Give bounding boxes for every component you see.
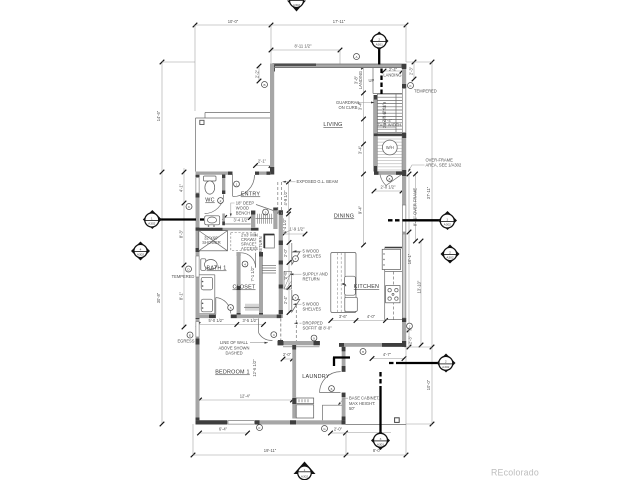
- right dimension 8'-11" over frame: [413, 172, 418, 244]
- svg-text:CLOSET: CLOSET: [232, 285, 256, 291]
- number circle 3 coat: [263, 209, 269, 215]
- svg-text:3: 3: [265, 211, 267, 215]
- stair landing: [373, 93, 402, 95]
- shower: [199, 231, 228, 251]
- dimension 4'-7" above laundry: [370, 352, 407, 361]
- wall column W2: [278, 210, 283, 345]
- note exposed gl beam: [283, 179, 339, 184]
- closet north wall piece: [237, 252, 241, 256]
- svg-text:3'-5 1/2": 3'-5 1/2": [243, 318, 259, 323]
- keynote circle E: [187, 332, 193, 338]
- section cut line bottom (3/A301): [379, 372, 381, 433]
- elevation marker 2/A302 right: [441, 245, 460, 264]
- bottom dimension 6'-4": [197, 427, 250, 436]
- patio outline bottom right: [346, 347, 407, 433]
- svg-text:WC: WC: [205, 198, 214, 204]
- section marker 1/A302 bottom center: [294, 462, 316, 480]
- keynote circle A: [354, 54, 360, 60]
- svg-text:2'-0": 2'-0": [334, 427, 343, 432]
- deck outline upper-left: [196, 113, 271, 172]
- svg-text:ON CURB: ON CURB: [339, 105, 358, 110]
- wc east wall stub: [222, 175, 225, 195]
- washer dryer stack: [296, 398, 314, 418]
- svg-text:2: 2: [449, 250, 451, 254]
- kitchen counter east: [385, 248, 402, 320]
- svg-text:SOFFIT @ 8'-0": SOFFIT @ 8'-0": [303, 326, 333, 331]
- svg-text:3'-4 1/2": 3'-4 1/2": [234, 218, 250, 223]
- svg-text:4'-0": 4'-0": [367, 314, 376, 319]
- shelf closet doors lower: [292, 290, 300, 312]
- island sink: [342, 276, 355, 295]
- supply return closet hatch: [284, 272, 292, 290]
- dimension 2'-4" stair width: [375, 118, 401, 128]
- svg-text:SHELVES: SHELVES: [303, 307, 322, 312]
- svg-text:MAX HEIGHT:: MAX HEIGHT:: [349, 401, 375, 406]
- dropped soffit dashed line hall: [295, 305, 297, 341]
- right dimension 16'-1": [407, 172, 412, 333]
- svg-text:A302: A302: [137, 253, 145, 257]
- svg-text:A301: A301: [376, 43, 384, 47]
- keynote circle F: [257, 425, 263, 431]
- svg-text:H: H: [362, 350, 364, 354]
- svg-text:4: 4: [244, 263, 246, 267]
- base cabinet laundry: [323, 405, 343, 420]
- svg-text:2: 2: [378, 37, 380, 41]
- svg-text:REcolorado: REcolorado: [491, 468, 539, 478]
- section marker 1/A302 left: [143, 210, 162, 229]
- bath vanity: [200, 275, 215, 314]
- svg-text:BEDROOM 1: BEDROOM 1: [215, 370, 250, 376]
- svg-text:LANDING: LANDING: [383, 73, 401, 78]
- dimension 5'-0 1/2" / 3'-5 1/2" bath: [196, 318, 266, 327]
- svg-text:E: E: [189, 334, 191, 338]
- right dimension 13'-10": [417, 239, 424, 348]
- svg-text:5: 5: [230, 306, 232, 310]
- bottom dimension 2'-0": [328, 427, 348, 436]
- svg-text:STAIR WIDTH: STAIR WIDTH: [375, 123, 401, 128]
- svg-text:BASE CABINET,: BASE CABINET,: [349, 396, 380, 401]
- refrigerator: [382, 249, 400, 269]
- svg-text:2'-0": 2'-0": [283, 248, 288, 257]
- west living wall: [270, 64, 274, 175]
- svg-text:1: 1: [151, 216, 153, 220]
- entry north wall: [196, 172, 271, 175]
- stair guard wall mid: [374, 134, 402, 137]
- svg-text:SHELVES: SHELVES: [303, 254, 322, 259]
- dimension 4'-9 1/2" beam: [283, 180, 291, 217]
- stair treads: [377, 94, 402, 133]
- svg-text:2: 2: [220, 199, 222, 203]
- svg-text:DASHED: DASHED: [225, 351, 242, 356]
- bottom wall: [196, 420, 346, 424]
- svg-text:4: 4: [140, 247, 142, 251]
- bench front edge: [225, 223, 251, 225]
- note supply and return: [290, 272, 328, 282]
- svg-text:A302: A302: [148, 222, 156, 226]
- left inner dimension line 4'-1" / 8'-3" / 8'-1": [179, 168, 187, 329]
- top wall living: [270, 63, 407, 71]
- svg-text:4'-9 1/2": 4'-9 1/2": [283, 190, 288, 206]
- section marker 3/A301 bottom: [371, 431, 390, 450]
- svg-text:17'-11": 17'-11": [333, 19, 346, 24]
- svg-text:A302: A302: [442, 365, 450, 369]
- number circle 7 shelf lower: [293, 295, 299, 301]
- keynote circle B: [262, 82, 268, 88]
- section marker top center: [287, 0, 306, 12]
- note 5 wood shelves lower: [293, 302, 321, 312]
- svg-text:50": 50": [349, 406, 356, 411]
- svg-text:A302: A302: [446, 256, 454, 260]
- svg-text:F: F: [259, 426, 261, 430]
- number circle 7 shelf upper: [293, 256, 299, 262]
- dimension 2'-4" landing: [382, 67, 405, 73]
- wc door arc: [205, 195, 224, 214]
- coat hooks hatch: [256, 205, 274, 224]
- entry door arc: [232, 175, 234, 197]
- svg-text:W/H: W/H: [386, 145, 394, 150]
- water heater circle: [382, 140, 397, 155]
- laundry north wall: [278, 341, 321, 347]
- svg-text:7'-1 1/2": 7'-1 1/2": [250, 266, 255, 282]
- svg-text:2'-0": 2'-0": [283, 352, 292, 357]
- section marker 1/A302 right: [438, 211, 457, 230]
- bedroom window bottom: [228, 421, 255, 424]
- dimension 2'-0 1/2" under stair: [372, 185, 405, 194]
- coat closet top connector: [273, 210, 283, 213]
- east wall: [402, 64, 406, 347]
- note dropped soffit: [294, 321, 332, 331]
- window west wall bath (tempered D): [196, 256, 199, 277]
- nook/kitchen south wall: [339, 343, 405, 347]
- right dimension 2'-3" top: [406, 60, 432, 82]
- section cut line left (1/A302 marker arrow): [160, 218, 207, 220]
- wh closet south wall: [374, 172, 402, 175]
- section cut line laundry (2/A302): [333, 358, 442, 367]
- return duct chase: [264, 235, 274, 249]
- svg-text:A302: A302: [301, 474, 309, 478]
- closet west wall: [237, 252, 241, 318]
- svg-text:1: 1: [236, 183, 238, 187]
- kitchen soffit dashed line: [393, 272, 395, 320]
- svg-text:2'-3": 2'-3": [408, 335, 413, 344]
- coat closet east wall: [273, 208, 277, 230]
- svg-text:16'-1": 16'-1": [407, 253, 412, 264]
- svg-text:2'-1": 2'-1": [258, 159, 267, 164]
- bath toilet: [201, 259, 217, 271]
- note over-frame area: [408, 158, 462, 173]
- svg-text:KITCHEN: KITCHEN: [354, 284, 379, 290]
- svg-text:3'-6": 3'-6": [339, 314, 348, 319]
- svg-text:9: 9: [313, 337, 315, 341]
- crawl space dashed rect: [231, 233, 256, 251]
- svg-text:TEMPERED: TEMPERED: [172, 274, 195, 279]
- svg-text:LANDING: LANDING: [358, 71, 363, 89]
- range: [386, 286, 400, 303]
- svg-text:7 R @ 11": 7 R @ 11": [382, 103, 387, 122]
- svg-text:1: 1: [446, 217, 448, 221]
- laundry west wall: [292, 345, 296, 419]
- dimension 1'-9 1/2" hall: [282, 227, 308, 237]
- keynote circle H: [360, 349, 366, 355]
- laundry east wall: [342, 347, 346, 422]
- right dimension 2'-3" at laundry: [404, 330, 432, 349]
- number circle 6 laundry door: [329, 386, 335, 392]
- hall south wall / door to bedroom: [237, 315, 282, 341]
- svg-text:37'-11": 37'-11": [426, 186, 431, 199]
- svg-text:30'-8": 30'-8": [156, 292, 161, 303]
- west exterior wall wc/bath/bedroom: [196, 172, 200, 425]
- svg-text:DINING: DINING: [334, 214, 354, 220]
- wc toilet: [204, 176, 217, 194]
- svg-text:7: 7: [295, 257, 297, 261]
- section cut line right (1/A302): [388, 219, 440, 221]
- svg-text:ABOVE SHOWN: ABOVE SHOWN: [219, 345, 250, 350]
- landing west edge line: [372, 68, 374, 94]
- svg-text:4: 4: [273, 333, 275, 337]
- keynote circle D: [186, 266, 192, 272]
- svg-text:2: 2: [445, 360, 447, 364]
- svg-text:LIVING: LIVING: [323, 122, 342, 128]
- svg-text:10'-0": 10'-0": [426, 379, 431, 390]
- svg-text:13'-10": 13'-10": [417, 280, 422, 293]
- dimension line top overall 10'-0" / 17'-11": [193, 19, 409, 111]
- shelf closet doors upper: [292, 243, 300, 265]
- svg-text:8: 8: [389, 177, 391, 181]
- keynote circle C: [186, 204, 192, 210]
- bench divider wall: [251, 211, 255, 229]
- beam dashed lines: [278, 182, 282, 214]
- svg-text:4'-1": 4'-1": [179, 183, 184, 192]
- svg-text:UP: UP: [369, 78, 375, 83]
- kitchen island: [331, 253, 356, 313]
- svg-text:10'-0": 10'-0": [228, 19, 239, 24]
- svg-text:RETURN: RETURN: [258, 236, 263, 253]
- svg-text:RETURN: RETURN: [303, 277, 320, 282]
- dimension 2'-0" hall nook: [281, 352, 295, 361]
- svg-text:12'-6 1/2": 12'-6 1/2": [252, 359, 257, 377]
- svg-text:6'-4": 6'-4": [219, 427, 228, 432]
- number circle 8 wh door: [387, 176, 393, 182]
- svg-text:A302: A302: [293, 3, 301, 7]
- svg-text:EGRESS: EGRESS: [177, 339, 194, 344]
- svg-text:EXPOSED G.L. BEAM: EXPOSED G.L. BEAM: [297, 179, 339, 184]
- svg-text:19'-11": 19'-11": [264, 448, 277, 453]
- svg-text:LINE OF WALL: LINE OF WALL: [220, 340, 249, 345]
- svg-text:9'-4": 9'-4": [358, 205, 363, 214]
- right outer dimension line 37'-11" / 10'-0": [406, 60, 434, 427]
- svg-text:2'-3": 2'-3": [409, 66, 414, 75]
- svg-text:A302: A302: [444, 223, 452, 227]
- svg-text:4'-7": 4'-7": [383, 352, 392, 357]
- line of wall above dashed (bedroom): [280, 319, 282, 341]
- svg-text:SHOWER: SHOWER: [202, 240, 220, 245]
- svg-text:BATH 1: BATH 1: [207, 266, 227, 272]
- stair guardrail curb wall: [374, 95, 378, 172]
- svg-text:5'-0 1/2": 5'-0 1/2": [209, 318, 225, 323]
- svg-text:ACCESS: ACCESS: [241, 246, 258, 251]
- dimension 3'-4 1/2" bench: [222, 215, 253, 222]
- laundry door leaf and arc: [320, 372, 341, 393]
- wh closet hatch: [377, 136, 402, 172]
- svg-text:2'-4": 2'-4": [283, 295, 288, 304]
- dimension 2'-1" entry opening: [253, 159, 273, 168]
- closet door arc: [241, 253, 256, 268]
- number circle 4 closet: [242, 261, 248, 267]
- note base cabinet: [338, 396, 380, 412]
- window west wall egress E: [196, 322, 199, 338]
- dishwasher: [345, 297, 358, 311]
- svg-text:8'-3": 8'-3": [179, 229, 184, 238]
- svg-text:12'-4": 12'-4": [240, 394, 251, 399]
- svg-text:2'-0 1/2": 2'-0 1/2": [381, 185, 397, 190]
- svg-text:8'-1": 8'-1": [179, 291, 184, 300]
- window east wall at dining: [402, 205, 405, 232]
- note line of wall above: [219, 340, 268, 356]
- wh door leaf diagonal: [380, 175, 402, 186]
- window east wall at stair: [402, 89, 405, 133]
- closet rod and hangers: [244, 304, 259, 311]
- elevation marker 4/A302 left: [131, 242, 150, 261]
- wc sink: [205, 216, 220, 227]
- keynote circle J stair: [407, 323, 413, 329]
- dimension 3'-6" / 4'-0" kitchen: [329, 314, 388, 323]
- stair left dimension 3'-8"/3'-4"/3'-4"/9'-4": [354, 65, 366, 248]
- svg-text:3: 3: [380, 437, 382, 441]
- svg-text:AREA, SEE 1/A302: AREA, SEE 1/A302: [426, 163, 462, 168]
- number circle 9 soffit: [311, 335, 317, 341]
- svg-text:ENTRY: ENTRY: [241, 192, 261, 198]
- dimension line 8'-11 1/2": [269, 44, 343, 65]
- note guardrail on curb: [336, 100, 374, 110]
- dimension 2'-2" at living wall corner: [255, 64, 262, 84]
- svg-text:8'-11 1/2": 8'-11 1/2": [295, 44, 312, 49]
- window west wall wc (tempered C): [196, 178, 199, 194]
- note 5 wood shelves upper: [293, 249, 321, 259]
- svg-text:2'-2": 2'-2": [255, 69, 260, 78]
- svg-text:B: B: [263, 83, 265, 87]
- bath door leaf and arc: [216, 298, 231, 315]
- note 18in deep wood bench: [230, 200, 255, 216]
- bath south wall: [196, 315, 241, 319]
- svg-text:TEMPERED: TEMPERED: [414, 89, 437, 94]
- svg-text:14'-6": 14'-6": [156, 110, 161, 121]
- svg-text:6: 6: [331, 387, 333, 391]
- keynote circle H2: [0, 0, 1, 1]
- number circle 2 wc: [218, 198, 224, 204]
- svg-text:BENCH: BENCH: [236, 210, 250, 215]
- number circle 4 hall door: [271, 332, 277, 338]
- section marker 2/A301 top stair: [370, 32, 389, 51]
- dimension 12'-4" bedroom: [197, 394, 295, 403]
- section cut line top (2/A301): [379, 50, 381, 95]
- svg-text:3'-4": 3'-4": [358, 145, 363, 154]
- bottom dimension 19'-11" / 8'-0": [191, 424, 409, 457]
- linen niche shelves: [262, 266, 276, 274]
- number circle 1 entry: [234, 181, 240, 187]
- number circle 5 bath door: [228, 305, 234, 311]
- section marker 2/A302 laundry right: [437, 354, 456, 373]
- closet shelf column dims 2'-0"/2'-6"/2'-4": [283, 208, 291, 315]
- svg-text:A301: A301: [377, 443, 385, 447]
- svg-text:1'-9 1/2": 1'-9 1/2": [290, 227, 306, 232]
- note crawl space access: [241, 233, 258, 252]
- wc door jamb: [222, 214, 225, 226]
- wall W1 closet east: [259, 252, 263, 318]
- svg-text:1: 1: [304, 468, 306, 472]
- left dimension line 14'-6" / 30'-8": [156, 60, 195, 427]
- svg-text:LAUNDRY: LAUNDRY: [302, 374, 330, 380]
- keynote circle K: [408, 83, 414, 89]
- keynote circle G: [322, 426, 328, 432]
- svg-text:7: 7: [295, 296, 297, 300]
- bath north wall: [200, 228, 259, 231]
